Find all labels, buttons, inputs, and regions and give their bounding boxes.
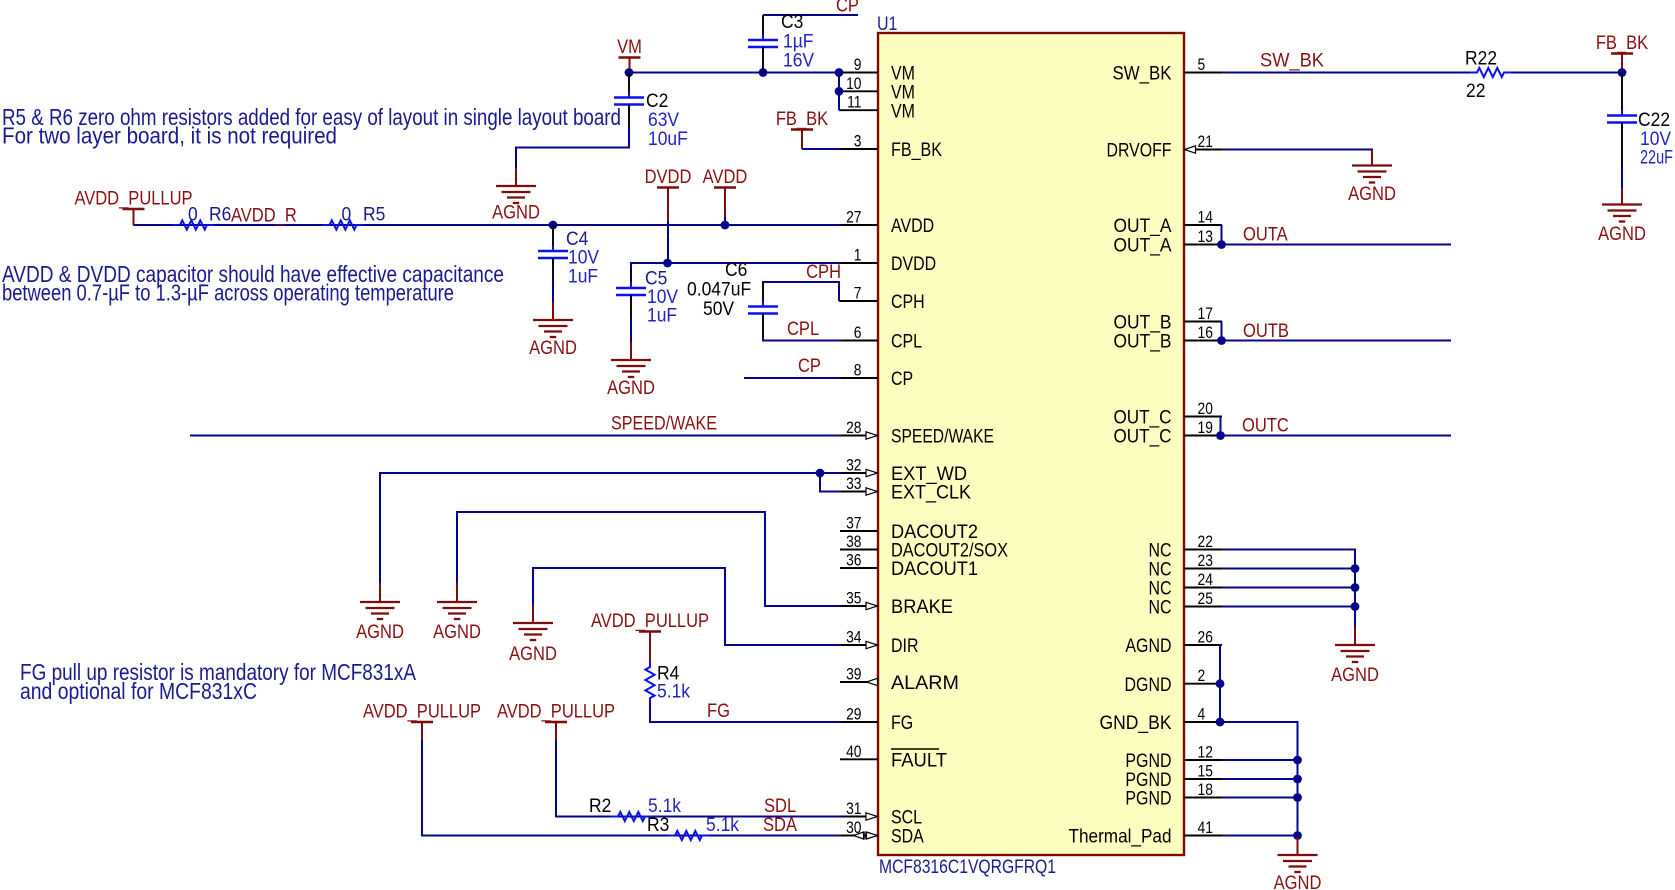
- svg-text:12: 12: [1198, 743, 1213, 761]
- pin 31 SCL: [840, 800, 922, 828]
- svg-text:DGND: DGND: [1125, 674, 1172, 696]
- svg-text:OUT_B: OUT_B: [1114, 313, 1172, 334]
- pin 9 VM: [840, 56, 915, 84]
- svg-text:DVDD: DVDD: [891, 253, 936, 275]
- svg-text:AVDD_PULLUP: AVDD_PULLUP: [74, 187, 192, 209]
- svg-text:11: 11: [847, 94, 861, 112]
- svg-text:BRAKE: BRAKE: [891, 597, 953, 618]
- pin 37 DACOUT2: [840, 514, 978, 543]
- wire CP pin 8: [744, 377, 841, 379]
- svg-text:OUT_C: OUT_C: [1114, 408, 1172, 429]
- node NC junctions: [1351, 564, 1360, 573]
- svg-text:DIR: DIR: [891, 635, 918, 657]
- power FB_BK (right): [1596, 32, 1648, 70]
- pin 32 EXT_WD: [840, 456, 967, 485]
- ground AGND (BRAKE): [433, 583, 481, 642]
- power AVDD_PULLUP (2): [497, 700, 615, 741]
- svg-text:FB_BK: FB_BK: [1596, 32, 1648, 54]
- ground AGND (C5): [607, 342, 655, 398]
- svg-text:R2: R2: [589, 794, 611, 816]
- svg-text:AGND: AGND: [356, 621, 404, 642]
- svg-text:CP: CP: [798, 355, 821, 376]
- node OUTA junction: [1217, 240, 1226, 249]
- svg-text:AVDD: AVDD: [703, 166, 748, 187]
- pin 3 FB_BK: [840, 132, 942, 161]
- svg-text:26: 26: [1198, 628, 1213, 646]
- pin 4 GND_BK: [1100, 705, 1223, 734]
- svg-text:1uF: 1uF: [647, 304, 677, 326]
- svg-text:AVDD_PULLUP: AVDD_PULLUP: [591, 610, 709, 632]
- node EXT_WD junction: [816, 469, 825, 478]
- svg-text:AGND: AGND: [607, 377, 655, 398]
- ground AGND (EXT_WD): [356, 583, 404, 642]
- svg-text:AGND: AGND: [492, 201, 540, 222]
- wire FG net: [650, 703, 841, 722]
- ground AGND (DIR): [509, 605, 557, 664]
- ground AGND (PGND chain): [1274, 837, 1322, 890]
- wire CPL net: [763, 338, 841, 341]
- svg-text:24: 24: [1198, 571, 1214, 589]
- power AVDD: [703, 166, 748, 218]
- svg-text:20: 20: [1198, 400, 1213, 418]
- capacitor C6: [687, 258, 778, 340]
- svg-text:DRVOFF: DRVOFF: [1107, 141, 1172, 162]
- svg-text:10: 10: [846, 75, 861, 93]
- resistor R4: [645, 661, 690, 704]
- svg-text:OUTA: OUTA: [1243, 223, 1288, 244]
- svg-text:MCF8316C1VQRGFRQ1: MCF8316C1VQRGFRQ1: [879, 857, 1056, 878]
- node AVDD rail junctions: [549, 221, 558, 230]
- ground AGND (NC): [1331, 627, 1379, 685]
- pin 10 VM: [840, 75, 915, 103]
- svg-text:4: 4: [1198, 705, 1206, 723]
- resistor R2: [589, 794, 682, 821]
- ground AGND (DRVOFF): [1348, 150, 1396, 204]
- svg-text:2: 2: [1198, 667, 1206, 685]
- svg-text:7: 7: [854, 284, 862, 302]
- svg-text:R22: R22: [1465, 47, 1497, 69]
- power AVDD_PULLUP (1): [363, 700, 481, 741]
- pin 22 NC: [1148, 533, 1222, 561]
- svg-text:FB_BK: FB_BK: [891, 140, 942, 161]
- svg-text:16: 16: [1198, 324, 1213, 342]
- svg-text:VM: VM: [891, 100, 915, 122]
- svg-text:CPH: CPH: [806, 261, 841, 282]
- svg-text:5.1k: 5.1k: [657, 680, 691, 702]
- note about R5 R6 zero ohm resistors: [2, 104, 621, 149]
- wire VM pins 10 11 branch: [838, 73, 840, 111]
- svg-text:CPH: CPH: [891, 291, 925, 313]
- power VM: [617, 36, 642, 73]
- wire R22 to FB_BK node: [1511, 72, 1622, 74]
- node OUTC junction: [1216, 431, 1225, 440]
- svg-text:AVDD_PULLUP: AVDD_PULLUP: [497, 700, 615, 722]
- svg-text:OUT_C: OUT_C: [1114, 427, 1172, 448]
- pin 6 CPL: [840, 324, 922, 352]
- capacitor C4: [538, 225, 600, 287]
- wire SPEED/WAKE net: [190, 435, 841, 437]
- note about AVDD DVDD capacitor: [2, 261, 504, 306]
- pin 30 SDA: [840, 819, 924, 847]
- svg-text:Thermal_Pad: Thermal_Pad: [1069, 827, 1172, 848]
- node DVDD junction: [663, 259, 672, 268]
- svg-text:OUT_A: OUT_A: [1114, 216, 1172, 237]
- svg-text:DVDD: DVDD: [645, 166, 692, 187]
- wire AVDD stem: [724, 217, 726, 225]
- node ground chain junctions: [1216, 679, 1225, 688]
- pin 33 EXT_CLK: [840, 475, 971, 504]
- svg-text:CP: CP: [836, 0, 859, 16]
- svg-text:NC: NC: [1148, 596, 1171, 618]
- svg-text:AGND: AGND: [1125, 635, 1171, 657]
- svg-text:25: 25: [1198, 590, 1213, 608]
- pin 21 DRVOFF: [1107, 133, 1223, 162]
- svg-text:OUT_B: OUT_B: [1114, 332, 1172, 353]
- svg-text:6: 6: [854, 324, 862, 342]
- capacitor C5: [616, 267, 679, 326]
- pin 34 DIR: [840, 628, 918, 656]
- resistor R22: [1465, 47, 1511, 101]
- wire BRAKE net: [457, 512, 841, 606]
- svg-text:PGND: PGND: [1125, 787, 1171, 809]
- svg-text:34: 34: [846, 628, 862, 646]
- pin 15 PGND: [1125, 762, 1222, 790]
- wire C2 to AGND: [516, 126, 629, 169]
- wire SW_BK net: [1222, 72, 1470, 74]
- wire ground chain: [1220, 645, 1298, 838]
- pin 19 OUT_C: [1114, 419, 1223, 448]
- svg-text:R5: R5: [363, 203, 385, 225]
- svg-text:22: 22: [1466, 79, 1485, 101]
- ground AGND (C22): [1598, 188, 1646, 244]
- svg-text:18: 18: [1198, 781, 1213, 799]
- svg-text:14: 14: [1198, 208, 1214, 226]
- svg-text:DACOUT1: DACOUT1: [891, 559, 978, 580]
- svg-text:For two layer board, it is not: For two layer board, it is not required: [2, 123, 337, 149]
- capacitor C22: [1607, 73, 1673, 169]
- wire VM rail: [629, 72, 840, 74]
- wire OUTA net: [1222, 225, 1452, 245]
- svg-text:50V: 50V: [703, 297, 735, 319]
- capacitor C3: [748, 10, 815, 72]
- svg-text:19: 19: [1198, 419, 1213, 437]
- svg-text:AGND: AGND: [1274, 872, 1322, 890]
- wire DIR net: [533, 568, 841, 645]
- svg-text:15: 15: [1198, 762, 1213, 780]
- pin 24 NC: [1148, 571, 1222, 599]
- svg-text:22: 22: [1198, 533, 1213, 551]
- wire FB_BK to pin 3: [802, 148, 841, 150]
- svg-text:AGND: AGND: [1348, 183, 1396, 204]
- ground AGND (C4): [529, 302, 577, 358]
- svg-text:SPEED/WAKE: SPEED/WAKE: [611, 414, 717, 435]
- resistor R6: [173, 203, 231, 230]
- pin 17 OUT_B: [1114, 305, 1223, 334]
- svg-text:FG: FG: [891, 712, 913, 734]
- svg-text:and optional for MCF831xC: and optional for MCF831xC: [20, 678, 257, 704]
- svg-text:U1: U1: [877, 13, 897, 35]
- pin 27 AVDD: [840, 208, 934, 236]
- svg-text:SW_BK: SW_BK: [1260, 51, 1324, 72]
- pin 11 VM: [840, 94, 915, 122]
- svg-text:10V: 10V: [1640, 127, 1672, 149]
- svg-text:36: 36: [846, 551, 861, 569]
- node OUTB junction: [1217, 336, 1226, 345]
- pin 23 NC: [1148, 552, 1222, 580]
- power FB_BK (top): [776, 108, 828, 149]
- pin 8 CP: [840, 361, 913, 389]
- svg-text:38: 38: [846, 533, 861, 551]
- svg-text:between 0.7-µF to 1.3-µF acros: between 0.7-µF to 1.3-µF across operatin…: [2, 280, 454, 306]
- wire AVDD rail: [134, 224, 842, 226]
- wire C5 to AGND: [630, 318, 632, 343]
- pin 18 PGND: [1125, 781, 1222, 809]
- svg-text:AGND: AGND: [1331, 664, 1379, 685]
- pin 1 DVDD: [840, 246, 936, 274]
- wire CPH net: [763, 282, 839, 301]
- svg-text:41: 41: [1198, 819, 1213, 837]
- wire DVDD stem: [667, 221, 669, 263]
- svg-text:9: 9: [854, 56, 862, 74]
- pin 41 Thermal_Pad: [1069, 819, 1223, 848]
- pin 26 AGND: [1125, 628, 1222, 656]
- svg-text:23: 23: [1198, 552, 1213, 570]
- wire EXT_CLK branch: [820, 473, 841, 492]
- svg-text:39: 39: [846, 665, 861, 683]
- svg-text:GND_BK: GND_BK: [1100, 713, 1172, 734]
- svg-text:13: 13: [1198, 228, 1213, 246]
- svg-text:22uF: 22uF: [1640, 148, 1673, 169]
- svg-text:31: 31: [846, 800, 861, 818]
- svg-text:AVDD_R: AVDD_R: [231, 204, 297, 226]
- svg-text:0: 0: [188, 203, 198, 225]
- svg-text:FB_BK: FB_BK: [776, 108, 828, 130]
- power AVDD_PULLUP (R4): [591, 610, 709, 661]
- svg-text:SPEED/WAKE: SPEED/WAKE: [891, 427, 994, 448]
- svg-text:OUTB: OUTB: [1243, 320, 1289, 341]
- svg-text:EXT_CLK: EXT_CLK: [891, 483, 971, 504]
- wire C4 to AGND: [552, 279, 554, 303]
- wire SDA net: [422, 740, 841, 836]
- svg-text:OUT_A: OUT_A: [1114, 236, 1172, 257]
- svg-text:16V: 16V: [783, 49, 815, 71]
- pin 36 DACOUT1: [840, 551, 978, 580]
- svg-text:10uF: 10uF: [648, 127, 688, 149]
- wire OUTB net: [1222, 322, 1452, 341]
- capacitor C2: [614, 73, 688, 150]
- svg-text:ALARM: ALARM: [891, 673, 959, 694]
- svg-text:AGND: AGND: [1598, 223, 1646, 244]
- resistor R5: [323, 203, 386, 230]
- svg-text:17: 17: [1198, 305, 1213, 323]
- svg-text:AGND: AGND: [529, 337, 577, 358]
- svg-text:29: 29: [846, 705, 861, 723]
- pin 12 PGND: [1125, 743, 1222, 771]
- svg-text:37: 37: [846, 514, 861, 532]
- wire EXT_WD net: [380, 473, 841, 584]
- svg-text:8: 8: [854, 361, 862, 379]
- svg-text:CPL: CPL: [787, 318, 819, 339]
- svg-text:R6: R6: [209, 203, 231, 225]
- svg-text:27: 27: [846, 208, 861, 226]
- pin 16 OUT_B: [1114, 324, 1223, 353]
- svg-text:AGND: AGND: [433, 621, 481, 642]
- svg-text:AVDD_PULLUP: AVDD_PULLUP: [363, 700, 481, 722]
- pin 25 NC: [1148, 590, 1222, 618]
- note about FG pull up resistor: [20, 659, 417, 704]
- svg-text:3: 3: [854, 132, 862, 150]
- node VM junctions: [625, 68, 634, 77]
- pin 39 ALARM: [840, 665, 959, 694]
- svg-text:FG: FG: [707, 700, 730, 721]
- pin 13 OUT_A: [1114, 228, 1223, 257]
- pin 2 DGND: [1125, 667, 1222, 695]
- node FB_BK junction: [1618, 68, 1627, 77]
- svg-text:1uF: 1uF: [568, 265, 598, 287]
- svg-text:FAULT: FAULT: [891, 751, 947, 772]
- wire CP top net: [763, 14, 858, 16]
- wire C22 to AGND: [1621, 166, 1623, 189]
- wire DVDD rail pin 1: [631, 263, 841, 272]
- wire DRVOFF net: [1222, 150, 1372, 152]
- pin 20 OUT_C: [1114, 400, 1223, 429]
- power DVDD: [645, 166, 692, 222]
- svg-text:21: 21: [1198, 133, 1213, 151]
- svg-text:R3: R3: [647, 813, 669, 835]
- pin 14 OUT_A: [1114, 208, 1223, 237]
- pin 29 FG: [840, 705, 913, 733]
- svg-text:VM: VM: [617, 36, 642, 57]
- pin 5 SW_BK: [1113, 56, 1223, 85]
- svg-text:32: 32: [846, 456, 861, 474]
- svg-text:AGND: AGND: [509, 643, 557, 664]
- pin 38 DACOUT2/SOX: [840, 533, 1008, 562]
- svg-text:5: 5: [1198, 56, 1206, 74]
- svg-text:AVDD: AVDD: [891, 215, 934, 237]
- svg-text:5.1k: 5.1k: [706, 813, 740, 835]
- ground AGND (C2): [492, 168, 540, 223]
- IC U1 MCF8316C1VQRGFRQ1: [877, 13, 1184, 878]
- wire NC pins net: [1222, 550, 1355, 629]
- wire SCL net: [556, 740, 841, 817]
- pin 40 FAULT: [840, 743, 947, 772]
- pin 7 CPH: [840, 284, 925, 312]
- svg-text:35: 35: [846, 589, 861, 607]
- svg-text:1: 1: [854, 246, 862, 264]
- svg-text:33: 33: [846, 475, 861, 493]
- svg-text:SDA: SDA: [891, 825, 924, 847]
- svg-text:CP: CP: [891, 368, 913, 390]
- wire OUTC net: [1221, 417, 1452, 436]
- svg-text:SW_BK: SW_BK: [1113, 64, 1172, 85]
- power AVDD_PULLUP (left): [74, 187, 192, 225]
- pin 35 BRAKE: [840, 589, 953, 618]
- svg-text:40: 40: [846, 743, 861, 761]
- pin 28 SPEED/WAKE: [840, 419, 994, 448]
- svg-text:SDA: SDA: [763, 814, 797, 835]
- resistor R3: [647, 813, 740, 840]
- svg-text:CPL: CPL: [891, 330, 922, 352]
- svg-text:0: 0: [342, 203, 352, 225]
- svg-text:28: 28: [846, 419, 861, 437]
- svg-text:OUTC: OUTC: [1242, 414, 1289, 435]
